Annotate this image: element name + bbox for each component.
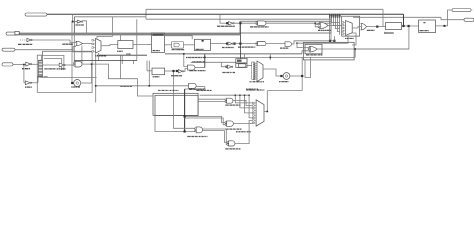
wire A3 out	[235, 120, 253, 143]
and gate A2	[196, 127, 202, 133]
register box AFKA	[152, 68, 165, 75]
wire M2 bottom stub	[98, 53, 100, 61]
buffer U16	[20, 39, 27, 41]
wire net L2	[146, 8, 383, 10]
gate box U5	[172, 42, 184, 49]
buffer U8	[228, 42, 232, 45]
wire AFKA to buffer	[165, 70, 177, 72]
wire stub into LUB	[119, 35, 121, 41]
and gate U9	[258, 42, 266, 46]
wire vertical x247	[246, 57, 248, 61]
wire vertical x403 dark	[403, 14, 405, 26]
wire G2 input drop	[184, 54, 188, 67]
and gate G2	[187, 65, 195, 70]
and gate A3	[229, 141, 235, 146]
wire net y62.3	[191, 61, 237, 63]
wire U2 out	[266, 22, 331, 24]
wire M1 bottom	[297, 35, 348, 47]
mux M3	[257, 61, 263, 82]
wire M2 select down	[95, 54, 97, 103]
mux M4	[256, 100, 264, 126]
input port tag C	[2, 48, 15, 51]
wire net y53.9 dark	[165, 53, 302, 55]
hierarchy box R2	[240, 21, 331, 33]
hierarchy box Q2	[44, 59, 62, 71]
mux M2	[96, 39, 102, 54]
and gate G3	[189, 83, 197, 88]
wire B1-B3 loop	[23, 65, 25, 83]
wire verticals below LUB	[120, 55, 122, 78]
buffer U17	[72, 14, 74, 21]
wire net y57	[205, 56, 355, 58]
buffer U1	[220, 22, 228, 24]
wire U3 out	[367, 26, 386, 28]
buffer B2	[43, 64, 60, 66]
wire into UFB4	[315, 23, 318, 24]
wire vertical x270	[269, 54, 271, 60]
or gate U3	[361, 23, 367, 30]
pin comb	[39, 60, 43, 76]
xor circle U12	[280, 75, 282, 77]
wire net y77.4	[41, 76, 96, 78]
wire vertical x112	[111, 17, 113, 37]
input port tag A	[25, 13, 47, 16]
wire U11 output	[317, 48, 409, 50]
wire vertical x173	[173, 71, 175, 115]
wire hatch verticals	[329, 14, 331, 19]
wire vertical x302	[301, 57, 303, 90]
wire M4 out	[264, 91, 267, 112]
wire vertical x443 to output	[436, 10, 452, 26]
wire x155 to A2	[155, 115, 195, 131]
wire U1 to U2	[234, 22, 256, 24]
register box VFC	[386, 23, 402, 30]
wire net L3	[353, 16, 441, 18]
wire vertical x184 dark	[184, 89, 186, 132]
or gate U11	[310, 46, 318, 52]
or gate U4	[76, 41, 83, 45]
register box REG2	[194, 39, 210, 50]
wire bus y95.2	[200, 94, 250, 96]
wire net y90.5	[268, 90, 303, 92]
xor circle U15	[72, 82, 74, 84]
wire x173 to A2	[174, 115, 195, 128]
and gate A1	[227, 98, 233, 103]
hierarchy box H7	[37, 51, 92, 92]
and gate U2	[258, 21, 266, 26]
wire G1 out route	[82, 64, 153, 96]
wire REG2 out	[210, 43, 228, 45]
wire net L1 top	[47, 13, 404, 15]
output port tag O1	[452, 9, 471, 12]
wire M3 out	[263, 69, 283, 76]
buffer U18	[179, 70, 183, 73]
small register boxes cluster	[236, 59, 247, 63]
wire pair from x184	[185, 116, 225, 122]
input port tag B	[6, 32, 19, 35]
wire vertical x86	[82, 21, 86, 33]
buffer U13	[228, 65, 232, 69]
wire vertical x220	[219, 14, 221, 23]
wire VFC to GUM	[402, 25, 419, 27]
register box ML	[152, 33, 165, 53]
wire U10 out	[292, 41, 335, 44]
big box label	[158, 89, 179, 91]
or gate UFB4	[320, 22, 328, 29]
wire verticals x133 x147	[133, 61, 135, 65]
hierarchy box Q1	[42, 55, 64, 70]
mux M4 feeds	[235, 95, 252, 103]
wire dark y55.2	[97, 54, 147, 56]
buffer B3	[24, 82, 25, 84]
wire vertical x240 dark	[239, 23, 241, 61]
and gate A4	[227, 121, 234, 126]
buffer B1	[26, 62, 31, 66]
wire vertical x383	[382, 9, 384, 26]
hierarchy box M1 enclosure	[342, 16, 360, 36]
output port tag O2	[464, 18, 474, 21]
and gate U14	[239, 64, 246, 67]
register box GUM	[419, 20, 436, 33]
hierarchy box H6	[75, 17, 146, 33]
wire box bottom to A1	[198, 98, 225, 100]
wire vertical x136.8	[136, 19, 138, 60]
wire elbow right of H5	[305, 57, 311, 77]
wire vertical x331	[330, 18, 332, 41]
bus pair from input B	[19, 32, 240, 34]
register box LUB	[118, 41, 133, 49]
and gate U10	[285, 42, 292, 47]
mux M1	[346, 21, 353, 36]
wire from tag C	[15, 49, 73, 51]
wire feedback loop right	[355, 26, 409, 57]
hierarchy box bottom	[153, 93, 198, 115]
hierarchy box H5	[303, 42, 354, 60]
input port tag D	[2, 63, 13, 66]
inner box around U11	[305, 44, 322, 54]
and gate G1	[64, 64, 73, 66]
wire M1 out to U3	[352, 27, 361, 28]
wire vertical x72 pair	[71, 22, 73, 83]
hierarchy box H8 top	[146, 18, 331, 20]
